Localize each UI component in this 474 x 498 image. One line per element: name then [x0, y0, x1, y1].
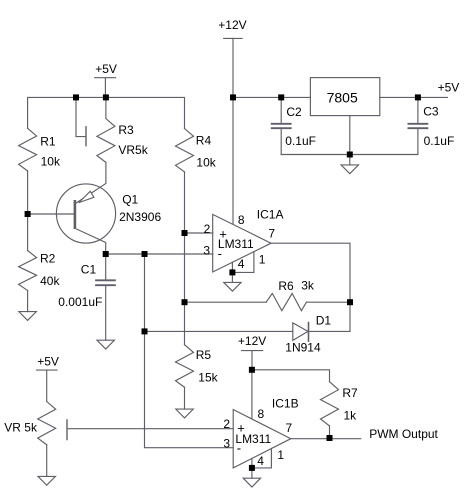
- svg-text:0.1uF: 0.1uF: [424, 134, 455, 148]
- svg-text:PWM Output: PWM Output: [369, 427, 438, 441]
- svg-text:+5V: +5V: [438, 80, 460, 94]
- svg-text:Q1: Q1: [122, 193, 138, 207]
- svg-text:R5: R5: [196, 348, 212, 362]
- svg-text:C1: C1: [81, 262, 97, 276]
- svg-text:-: -: [237, 441, 241, 456]
- svg-text:7: 7: [286, 421, 293, 435]
- svg-text:+12V: +12V: [238, 334, 266, 348]
- svg-text:1N914: 1N914: [285, 341, 321, 355]
- svg-text:VR5k: VR5k: [118, 143, 148, 157]
- svg-text:R4: R4: [196, 133, 212, 147]
- svg-text:VR 5k: VR 5k: [4, 421, 38, 435]
- svg-text:8: 8: [238, 213, 245, 227]
- svg-text:C2: C2: [286, 105, 302, 119]
- svg-text:10k: 10k: [41, 155, 61, 169]
- svg-text:7805: 7805: [327, 90, 358, 106]
- svg-text:3k: 3k: [301, 278, 315, 292]
- svg-text:1k: 1k: [344, 409, 358, 423]
- svg-text:+12V: +12V: [218, 18, 246, 32]
- svg-text:3: 3: [223, 437, 230, 451]
- svg-text:R6: R6: [278, 279, 294, 293]
- svg-text:2N3906: 2N3906: [119, 210, 161, 224]
- svg-text:2: 2: [204, 222, 211, 236]
- svg-text:4: 4: [257, 454, 264, 468]
- svg-text:IC1A: IC1A: [257, 208, 284, 222]
- svg-text:40k: 40k: [40, 274, 60, 288]
- svg-text:IC1B: IC1B: [272, 397, 299, 411]
- svg-text:2: 2: [223, 417, 230, 431]
- svg-text:R2: R2: [40, 252, 56, 266]
- svg-text:15k: 15k: [198, 370, 218, 384]
- svg-text:C3: C3: [423, 104, 439, 118]
- svg-text:R1: R1: [40, 134, 56, 148]
- svg-text:0.1uF: 0.1uF: [285, 134, 316, 148]
- svg-text:R3: R3: [118, 123, 134, 137]
- svg-text:-: -: [218, 246, 222, 261]
- svg-text:8: 8: [258, 407, 265, 421]
- svg-text:0.001uF: 0.001uF: [58, 295, 102, 309]
- svg-text:R7: R7: [342, 386, 358, 400]
- svg-text:+5V: +5V: [37, 354, 59, 368]
- svg-text:+5V: +5V: [95, 62, 117, 76]
- svg-text:3: 3: [203, 243, 210, 257]
- svg-text:1: 1: [259, 253, 266, 267]
- svg-text:D1: D1: [316, 313, 332, 327]
- svg-text:+: +: [219, 226, 227, 241]
- svg-text:4: 4: [238, 257, 245, 271]
- svg-text:7: 7: [268, 227, 275, 241]
- svg-text:10k: 10k: [196, 155, 216, 169]
- svg-text:1: 1: [277, 448, 284, 462]
- svg-text:+: +: [237, 421, 245, 436]
